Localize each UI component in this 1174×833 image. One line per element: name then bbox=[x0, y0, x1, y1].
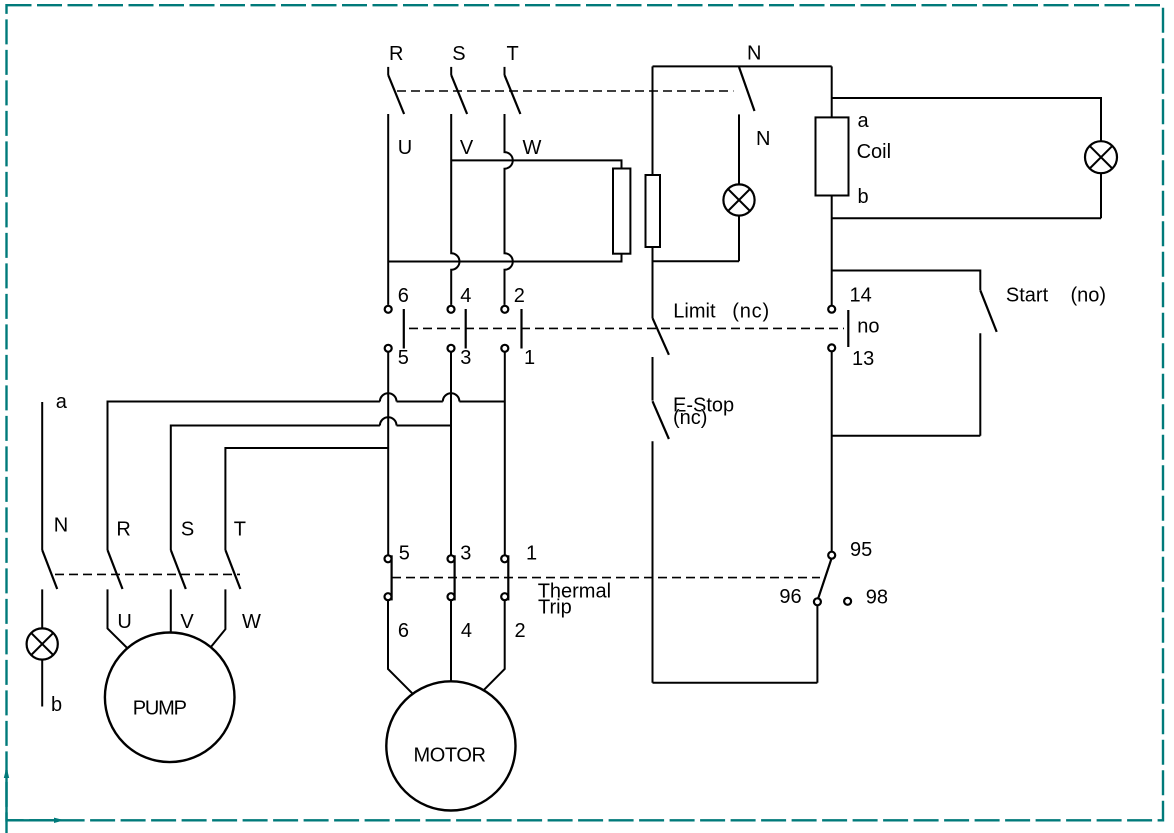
overload contact 3-4 bbox=[448, 555, 455, 600]
svg-text:1: 1 bbox=[526, 543, 537, 565]
svg-text:b: b bbox=[51, 694, 62, 716]
motor M bbox=[386, 681, 515, 810]
wire coil drop bbox=[831, 66, 833, 117]
coil K1 bbox=[816, 117, 849, 195]
start switch (no) bbox=[980, 290, 996, 332]
pilot lamp loop wires bbox=[832, 98, 1101, 218]
svg-text:3: 3 bbox=[460, 543, 471, 565]
lamp circuit wire b bbox=[41, 660, 43, 707]
svg-text:6: 6 bbox=[398, 285, 409, 307]
svg-text:MOTOR: MOTOR bbox=[414, 745, 486, 767]
contactor linkage (dashed) bbox=[409, 327, 844, 329]
disconnect switch T bbox=[505, 67, 521, 114]
wire 96 down bbox=[816, 605, 818, 682]
svg-text:N: N bbox=[54, 514, 68, 536]
svg-text:R: R bbox=[389, 43, 403, 65]
svg-text:(nc): (nc) bbox=[673, 407, 707, 429]
wire R to pump branch with hops bbox=[108, 393, 505, 550]
svg-text:a: a bbox=[858, 110, 870, 132]
wire phase U bbox=[387, 114, 389, 305]
wire V-phase to heater top bbox=[451, 160, 621, 168]
svg-text:6: 6 bbox=[398, 620, 409, 642]
heater element bbox=[613, 169, 630, 254]
svg-text:V: V bbox=[460, 137, 474, 159]
wire phase V with hop bbox=[451, 114, 459, 305]
start branch wires bbox=[832, 271, 981, 436]
svg-text:N: N bbox=[756, 128, 770, 150]
limit switch (nc) bbox=[653, 318, 669, 355]
switch N (left lamp) bbox=[42, 550, 57, 589]
svg-text:(no): (no) bbox=[1071, 285, 1107, 307]
fuse control bbox=[646, 175, 661, 247]
wire overload to motor V bbox=[450, 601, 452, 681]
svg-text:S: S bbox=[452, 43, 465, 65]
wire lamp N drop bbox=[738, 114, 740, 184]
pump P bbox=[105, 633, 235, 763]
lamp (left) bbox=[27, 628, 58, 659]
wire T to pump branch bbox=[225, 448, 388, 550]
pump switch T bbox=[225, 550, 240, 589]
wire coil to contact 13-14 bbox=[831, 196, 833, 306]
svg-text:2: 2 bbox=[514, 285, 525, 307]
svg-text:b: b bbox=[858, 186, 869, 208]
wire lamp N to left drop bbox=[653, 216, 740, 262]
svg-text:(nc): (nc) bbox=[732, 300, 770, 322]
svg-text:Start: Start bbox=[1006, 285, 1049, 307]
wire fuse to limit switch bbox=[652, 247, 654, 318]
mechanical linkage N-R-S-T pump switches (dashed) bbox=[55, 573, 240, 575]
svg-text:a: a bbox=[56, 391, 68, 413]
overload contact 5-6 bbox=[385, 555, 392, 600]
pilot lamp (right) bbox=[1085, 141, 1117, 173]
svg-text:U: U bbox=[398, 137, 412, 159]
wire heater bottom to U-phase bbox=[388, 254, 621, 262]
svg-text:W: W bbox=[523, 137, 542, 159]
wire overload to motor U bbox=[388, 601, 413, 694]
wire pole1 down bbox=[387, 352, 389, 555]
mechanical linkage R-S-T-N disconnect (dashed) bbox=[397, 90, 734, 92]
wire control left drop bbox=[652, 66, 654, 175]
svg-text:1: 1 bbox=[524, 347, 535, 369]
thermal trip linkage (dashed) bbox=[392, 577, 820, 579]
svg-text:5: 5 bbox=[399, 543, 410, 565]
contactor pole 2-1 bbox=[501, 306, 521, 352]
wire 13 down to 95 bbox=[831, 352, 833, 552]
svg-text:Trip: Trip bbox=[538, 597, 572, 619]
svg-text:no: no bbox=[857, 316, 879, 338]
e-stop switch (nc) bbox=[653, 401, 669, 439]
svg-text:T: T bbox=[507, 43, 519, 65]
svg-text:T: T bbox=[234, 519, 246, 541]
disconnect switch R bbox=[388, 67, 404, 114]
wire pole3 down bbox=[504, 352, 506, 555]
svg-text:V: V bbox=[180, 611, 194, 633]
wire overload to motor W bbox=[484, 601, 505, 690]
svg-text:U: U bbox=[117, 611, 131, 633]
wire R to pump U bbox=[108, 589, 128, 648]
svg-text:98: 98 bbox=[866, 586, 888, 608]
pump switch S bbox=[171, 550, 186, 589]
wire limit to e-stop bbox=[652, 357, 654, 401]
lamp circuit wire a bbox=[41, 402, 43, 550]
svg-text:4: 4 bbox=[460, 285, 471, 307]
svg-text:W: W bbox=[242, 611, 261, 633]
svg-text:95: 95 bbox=[850, 539, 872, 561]
pump switch R bbox=[108, 550, 123, 589]
aux contact 14-13 bbox=[828, 306, 848, 352]
svg-text:3: 3 bbox=[460, 347, 471, 369]
wire pole2 down bbox=[450, 352, 452, 555]
wire bottom return bbox=[653, 682, 818, 684]
svg-text:2: 2 bbox=[515, 620, 526, 642]
switch N (control disconnect) bbox=[739, 67, 755, 111]
wire N to lamp bbox=[41, 589, 43, 628]
svg-text:R: R bbox=[116, 519, 130, 541]
svg-text:13: 13 bbox=[852, 348, 874, 370]
wire S to pump V bbox=[170, 589, 172, 632]
lamp N bbox=[723, 184, 754, 215]
svg-text:96: 96 bbox=[779, 586, 801, 608]
wire control top bus bbox=[653, 65, 832, 67]
svg-text:S: S bbox=[181, 519, 194, 541]
overload trip contact 95-96-98 bbox=[814, 552, 851, 606]
wire phase W with hops bbox=[505, 114, 513, 305]
svg-text:PUMP: PUMP bbox=[133, 698, 187, 720]
wire e-stop down bbox=[652, 441, 654, 683]
contactor pole 4-3 bbox=[448, 306, 466, 352]
wire T to pump W bbox=[211, 589, 225, 647]
svg-text:4: 4 bbox=[461, 620, 472, 642]
svg-text:Limit: Limit bbox=[673, 300, 716, 322]
disconnect switch S bbox=[451, 67, 467, 114]
wire S to pump branch with hop bbox=[171, 417, 451, 550]
svg-text:Coil: Coil bbox=[857, 141, 891, 163]
contactor pole 6-5 bbox=[385, 306, 404, 352]
svg-text:N: N bbox=[747, 43, 761, 65]
overload contact 1-2 bbox=[501, 555, 508, 600]
svg-text:14: 14 bbox=[850, 284, 872, 306]
svg-text:5: 5 bbox=[398, 347, 409, 369]
